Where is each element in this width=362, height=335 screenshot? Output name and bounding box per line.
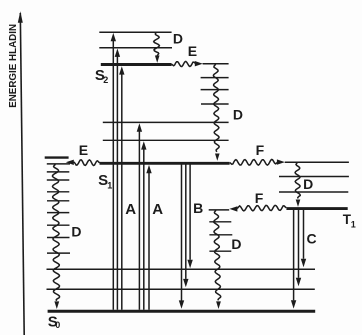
vibrational relaxation D to S0 (mid wavy arrow): [214, 210, 221, 309]
label S0: [48, 313, 61, 330]
label S2: [95, 67, 108, 85]
svg-text:D: D: [233, 106, 243, 122]
isoenergetic transfer E from S1 (wavy arrow, leftward): [66, 160, 100, 166]
S0 vibrational tick v2a: [47, 237, 70, 239]
S0 vibrational tick v8: [47, 171, 70, 173]
label D (relaxation to S1): [233, 106, 243, 122]
S0 high vibrational level (F landing): [209, 209, 230, 211]
svg-text:F: F: [255, 190, 264, 206]
S0 vibrational level v1 (long): [47, 288, 315, 290]
T1 vibrational level v1: [279, 191, 348, 193]
svg-text:E: E: [79, 142, 88, 158]
absorption arrow A to S1 v2: [137, 123, 142, 309]
svg-text:1: 1: [351, 220, 356, 230]
energy axis arrow: [18, 11, 24, 335]
level S1: [100, 162, 230, 165]
label F (to T1): [256, 142, 265, 158]
phosphorescence arrow C to S0 v1: [301, 210, 306, 267]
label A (absorption to S1): [152, 201, 163, 218]
svg-text:2: 2: [103, 75, 108, 85]
label D (mid relaxation): [231, 236, 241, 252]
S0 vibrational tick v6: [47, 191, 69, 193]
phosphorescence arrow C to S0 v2: [296, 210, 301, 286]
S1 vibrational level v2: [103, 121, 229, 123]
label A (absorption to S2): [125, 201, 136, 218]
S0 vibrational tick b1: [209, 250, 231, 252]
absorption arrow A to S2 v1: [115, 49, 120, 310]
S0 vibrational level v2 (long): [47, 268, 316, 270]
absorption arrow A to S2 v2: [111, 33, 116, 310]
svg-text:F: F: [256, 142, 265, 158]
label B (fluorescence): [193, 200, 203, 216]
label S1: [98, 172, 112, 191]
svg-text:ENERGIE HLADIN: ENERGIE HLADIN: [8, 24, 19, 108]
svg-text:D: D: [71, 224, 81, 240]
S1 vibrational level v5: [201, 77, 229, 79]
svg-text:B: B: [193, 200, 203, 216]
vibrational relaxation D to S0 (left wavy arrow): [53, 164, 60, 309]
label D (left relaxation): [71, 224, 81, 240]
svg-text:E: E: [188, 43, 197, 59]
label D (S2 relaxation): [173, 31, 183, 47]
S0 vibrational tick v1a: [47, 252, 70, 254]
vibrational relaxation D to S1 (wavy arrow): [213, 64, 219, 161]
svg-text:1: 1: [107, 181, 112, 191]
fluorescence arrow B to S0 v2: [183, 165, 188, 288]
S0 hot band thick level: [45, 156, 69, 158]
axis label ENERGIE HLADIN: [8, 24, 19, 108]
svg-text:D: D: [231, 236, 241, 252]
label E (right): [188, 43, 197, 59]
label F (from T1): [255, 190, 264, 206]
absorption arrow A to S1 v1: [141, 141, 146, 310]
isoenergetic transfer E from S2 (wavy arrow): [172, 61, 203, 67]
internal conversion D within S2 (wavy arrow): [154, 33, 160, 63]
S1 vibrational level v4: [201, 89, 229, 91]
S0 vibrational tick v9: [47, 163, 70, 165]
S0 vibrational tick v5: [47, 200, 69, 202]
S1 vibrational level v1: [103, 139, 229, 141]
phosphorescence arrow C to S0: [291, 210, 296, 309]
T1 vibrational level v2: [279, 176, 349, 178]
S0 vibrational tick v3: [47, 224, 70, 226]
S0 vibrational tick b2: [209, 234, 232, 236]
S1 vibrational level v6: [203, 63, 229, 65]
level S0: [48, 310, 316, 313]
transfer F from T1 (wavy arrow, leftward): [229, 205, 286, 211]
label D (relaxation to T1): [303, 176, 313, 192]
svg-text:A: A: [125, 201, 136, 218]
vibrational relaxation D to T1 (wavy arrow): [295, 163, 300, 207]
fluorescence arrow B to S0: [179, 165, 184, 309]
S2 vibrational level v1: [99, 47, 172, 49]
svg-text:D: D: [303, 176, 313, 192]
S2 vibrational level v2 (top): [99, 31, 171, 33]
svg-text:A: A: [152, 201, 163, 218]
label T1: [343, 212, 356, 230]
svg-text:D: D: [173, 31, 183, 47]
label C (phosphorescence): [307, 230, 317, 246]
absorption arrow A to S1: [146, 165, 151, 310]
S0 vibrational tick v4: [47, 212, 69, 214]
level T1: [286, 207, 347, 210]
fluorescence arrow B to S0 v1: [187, 165, 192, 269]
T1 vibrational level v3: [285, 161, 349, 163]
svg-text:0: 0: [55, 320, 60, 330]
level S2: [101, 63, 172, 66]
label E (left): [79, 142, 88, 158]
absorption arrow A to S2: [119, 66, 124, 310]
S1 vibrational level v3: [201, 103, 229, 105]
S0 vibrational tick v7: [47, 179, 70, 181]
S0 vibrational tick b3: [209, 221, 231, 223]
svg-text:C: C: [307, 230, 317, 246]
intersystem crossing F from S1 (wavy arrow): [230, 159, 285, 165]
